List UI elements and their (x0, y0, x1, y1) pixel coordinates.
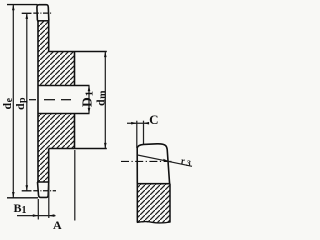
hub top face + dm extension (49, 51, 107, 53)
r3 leader arrowhead (163, 159, 169, 162)
plate right edge lower (48, 149, 50, 183)
axis centerline (29, 99, 71, 101)
B1 arrow left (33, 214, 39, 217)
top pitch centerline (33, 12, 52, 14)
hub right face lower (74, 114, 76, 149)
B1 extension line right (48, 185, 50, 218)
C arrow left (131, 122, 137, 125)
B1 extension line left (37, 199, 39, 220)
svg-text:C: C (149, 112, 158, 127)
plate right edge upper (48, 21, 50, 52)
right edge right view block (169, 184, 171, 223)
bottom break line right view (137, 222, 171, 223)
r3 leader line (138, 155, 193, 166)
de dimension line (12, 5, 14, 198)
C dimension line (127, 122, 149, 124)
dp top extension bar (22, 12, 32, 14)
hatch plate lower (38, 149, 49, 183)
bottom pitch centerline (33, 190, 56, 192)
hub bottom face + dm extension (49, 148, 107, 150)
svg-text:r: r (181, 157, 185, 167)
dm dimension line (104, 52, 106, 149)
dm arrow bottom (104, 143, 107, 149)
dp dimension line (26, 13, 28, 191)
left edge right view block (136, 184, 138, 223)
top tooth outline (37, 5, 49, 21)
dp bottom extension bar (22, 190, 32, 192)
hatch plate upper (38, 21, 49, 52)
bottom tooth root line (37, 181, 49, 183)
A extension line right (74, 150, 76, 221)
dp arrow bottom (26, 185, 29, 191)
bore top line (38, 85, 90, 87)
hatch hub lower (38, 114, 75, 149)
de bottom extension line (7, 197, 38, 199)
bottom tooth outline (38, 182, 49, 197)
hatched plate section right view (137, 184, 170, 222)
C extension line left (136, 121, 138, 148)
plate left face line (37, 21, 39, 183)
B1/A dimension line (17, 215, 56, 217)
root line right view (137, 183, 170, 185)
de arrow top (12, 5, 15, 11)
top tooth root line (37, 20, 49, 22)
D1 dimension line (88, 86, 90, 114)
dp arrow top (26, 13, 29, 19)
tooth profile outline (137, 144, 169, 184)
C arrow right (144, 122, 150, 125)
svg-text:A: A (53, 218, 62, 232)
C extension line right (143, 121, 145, 145)
svg-text:3: 3 (186, 158, 192, 168)
pitch centerline right view (121, 160, 172, 162)
B1 arrow right (49, 214, 55, 217)
de top extension line (7, 4, 38, 6)
bore bottom line (38, 113, 90, 115)
hub right face upper (74, 52, 76, 86)
hatch hub upper (38, 52, 75, 86)
D1 arrow top (88, 86, 91, 92)
D1 arrow bottom (88, 108, 91, 114)
de arrow bottom (12, 192, 15, 198)
dm arrow top (104, 52, 107, 58)
